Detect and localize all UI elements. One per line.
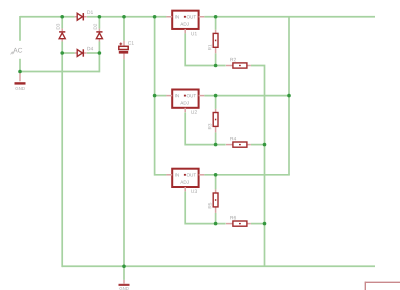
wire U1 ADJ drop — [185, 33, 226, 65]
resistor R3 — [213, 109, 218, 132]
wire R5 top lead — [215, 175, 217, 190]
label R2 — [230, 58, 236, 61]
wire R1 bottom lead — [215, 53, 217, 65]
node junction (154.6,95.6) — [153, 94, 157, 98]
ground bar — [119, 284, 130, 286]
node junction (20,71.5) — [18, 70, 22, 74]
node junction (99,17) — [98, 15, 102, 19]
wire AC bottom lead — [19, 59, 21, 72]
node junction (215.6,144.6) — [214, 143, 218, 147]
resistor R6 — [226, 221, 251, 226]
ground GND left — [15, 72, 26, 90]
wire R1 top lead — [215, 17, 217, 30]
node junction (62,17) — [60, 15, 64, 19]
node junction (215.6,174.8) — [214, 173, 218, 177]
frame title block corner — [365, 282, 400, 290]
op-amp U1 — [166, 11, 204, 34]
label D1 — [87, 11, 93, 14]
wire R3 bottom lead — [215, 132, 217, 144]
wire AC to bridge bottom — [20, 71, 99, 73]
label D2 — [94, 24, 97, 29]
wire bridge right leg down — [98, 53, 100, 72]
wire C1 top lead — [123, 17, 125, 41]
label R3 — [208, 124, 211, 129]
wire R4 right segment — [251, 144, 265, 146]
wire U2 ADJ drop — [185, 112, 226, 144]
node junction (215.6,17) — [214, 15, 218, 19]
AC squiggle — [11, 52, 15, 55]
resistor R1 — [213, 30, 218, 54]
wire bridge bottom row left — [62, 52, 75, 54]
wire top rail left segment — [20, 16, 75, 18]
wire AC top lead — [19, 16, 21, 41]
wire R6 right segment — [251, 223, 265, 225]
diode D4 — [75, 49, 87, 56]
label GND — [120, 287, 129, 290]
wire bottom rail — [62, 265, 375, 267]
label D3 — [56, 24, 59, 29]
wire R3 top lead — [215, 96, 217, 109]
node junction (124,266.25) — [122, 264, 126, 268]
label R1 — [208, 45, 211, 50]
wire bridge bottom row right — [87, 52, 100, 54]
resistor R5 — [213, 189, 218, 213]
wire top rail D1 to U1 IN — [87, 16, 166, 18]
wire feed to U2 U3 IN — [155, 17, 167, 175]
node junction (215.6,223.6) — [214, 222, 218, 226]
node junction (215.6,95.6) — [214, 94, 218, 98]
label U2 — [191, 110, 197, 114]
node junction (124,17) — [122, 15, 126, 19]
wire D2 top lead — [98, 17, 100, 29]
node junction (215.6,65.5) — [214, 64, 218, 68]
diode D1 — [75, 13, 87, 20]
wire chain down R6 to bottom rail — [264, 224, 266, 267]
resistor R2 — [226, 63, 251, 68]
ground GND bottom — [119, 266, 130, 290]
op-amp U3 — [166, 169, 204, 192]
label U3 — [191, 189, 197, 193]
wire D3 bottom lead — [61, 42, 63, 54]
label AC — [13, 48, 22, 53]
wire chain down R4 to R6 — [264, 145, 266, 224]
wire R2 right to down chain — [251, 66, 265, 145]
node junction (289,95.6) — [287, 94, 291, 98]
diode D3 — [59, 29, 65, 42]
wire out tie vertical — [288, 17, 290, 175]
node junction (154.6,17) — [153, 15, 157, 19]
node junction (99,53) — [98, 51, 102, 55]
node junction (62,53) — [60, 51, 64, 55]
label R4 — [230, 137, 236, 140]
wire C1 bottom lead to bottom rail — [123, 59, 125, 266]
ground lead — [123, 280, 125, 284]
wire U1 OUT rail to right edge — [204, 16, 375, 18]
wire down to ground — [123, 266, 125, 280]
wire R5 bottom lead — [215, 213, 217, 224]
wire D3 top lead — [61, 17, 63, 29]
resistor R4 — [226, 142, 251, 147]
wire U2 OUT row — [204, 95, 289, 97]
label U1 — [191, 32, 197, 35]
label C1 — [128, 41, 134, 45]
node junction (264.5,144.6) — [263, 143, 267, 147]
node junction (264.5,223.6) — [263, 222, 267, 226]
wire U3 OUT row — [204, 174, 290, 176]
diode D2 — [96, 29, 102, 42]
wire left vertical to bottom rail — [61, 53, 63, 267]
label R6 — [230, 216, 236, 220]
label R5 — [208, 203, 211, 208]
capacitor C1 — [119, 41, 128, 60]
wire U3 ADJ drop — [185, 192, 226, 224]
label D4 — [87, 47, 93, 50]
wire D2 bottom lead — [98, 42, 100, 54]
op-amp U2 — [166, 90, 204, 113]
wire U2 IN stub — [155, 95, 167, 97]
